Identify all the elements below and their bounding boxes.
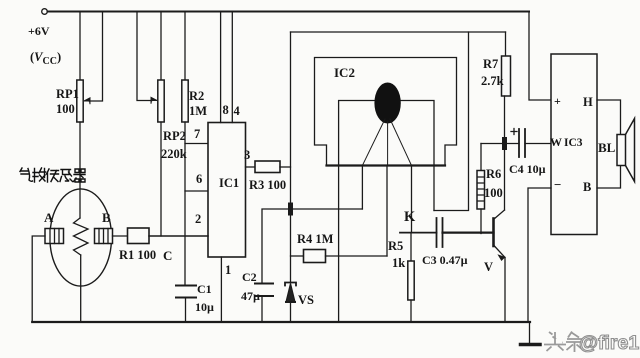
IC2 inner rectangle	[339, 101, 434, 211]
IC3 W input label	[550, 135, 562, 149]
speaker BL label	[598, 140, 616, 155]
node junction dot	[288, 205, 293, 213]
resistor R3	[255, 161, 280, 173]
svg-text:B: B	[583, 180, 591, 194]
svg-text:4: 4	[234, 104, 241, 118]
pin number 6	[196, 172, 202, 186]
svg-text:−: −	[554, 177, 561, 192]
wire sensor heater to ground	[80, 255, 82, 322]
wire node to C2 and IC2 pin	[262, 209, 362, 284]
pin number 1	[225, 263, 231, 277]
wire IC1 pin1 to ground	[220, 257, 222, 322]
resistor R6	[477, 144, 485, 234]
IC3 minus terminal label	[554, 177, 561, 192]
svg-text:R7: R7	[483, 57, 498, 71]
svg-text:C3 0.47µ: C3 0.47µ	[422, 253, 468, 267]
wire IC2 pin to R4	[386, 166, 388, 257]
svg-text:100: 100	[56, 102, 75, 116]
wire RP2 top lead	[160, 12, 162, 81]
wire R3 to trigger node	[280, 166, 291, 168]
svg-text:220k: 220k	[161, 147, 187, 161]
wire IC2 pin to node K	[411, 166, 413, 233]
wire IC1 pin3 stub	[246, 166, 256, 168]
svg-text:V: V	[484, 260, 493, 274]
resistor R3 value label	[249, 178, 286, 192]
pin number 4	[234, 104, 241, 118]
wire electrode A to left rail	[32, 236, 45, 322]
wire RP2 bottom lead to node C	[160, 122, 162, 236]
gas sensor label (气敏传感器 drawn strokes)	[20, 168, 85, 182]
svg-text:100: 100	[484, 186, 503, 200]
svg-text:VS: VS	[298, 293, 314, 307]
svg-text:C2: C2	[242, 270, 257, 284]
svg-text:R5: R5	[388, 239, 403, 253]
svg-text:3: 3	[244, 148, 250, 162]
svg-text:1k: 1k	[392, 256, 405, 270]
svg-text:BL: BL	[598, 140, 616, 155]
resistor R4	[291, 250, 388, 263]
svg-text:R1 100: R1 100	[119, 248, 156, 262]
svg-text:C: C	[163, 248, 172, 263]
op-amp IC1 label	[219, 176, 239, 190]
wire IC1 pin7 stub	[185, 143, 208, 145]
svg-text:R2: R2	[189, 89, 204, 103]
resistor R4 value label	[297, 232, 334, 246]
capacitor C4	[505, 129, 552, 158]
capacitor C1 value labels	[195, 282, 214, 314]
svg-text:IC3: IC3	[564, 137, 583, 149]
svg-text:+: +	[554, 94, 561, 108]
node K label	[404, 209, 416, 225]
pin number 2	[195, 212, 201, 226]
wire R2 bottom lead down to C1	[184, 122, 186, 285]
IC2 label	[334, 65, 355, 80]
svg-text:1: 1	[225, 263, 231, 277]
svg-text:+6V: +6V	[28, 24, 50, 38]
amplifier IC3	[551, 54, 597, 235]
zener diode VS label	[298, 293, 314, 307]
resistor R2	[182, 80, 188, 122]
wire IC3 H to speaker	[597, 100, 621, 135]
wire IC3 minus to ground	[528, 188, 551, 322]
speaker BL	[617, 119, 635, 182]
svg-text:7: 7	[194, 127, 200, 141]
svg-text:K: K	[404, 209, 416, 225]
svg-text:R6: R6	[486, 167, 501, 181]
node C label	[163, 248, 172, 263]
node A label	[44, 210, 54, 225]
wire IC1 pin6 stub	[185, 190, 208, 192]
wire IC3 B to speaker	[597, 166, 621, 189]
svg-text:W: W	[550, 135, 562, 149]
pin number 3	[244, 148, 250, 162]
resistor R7 value labels	[481, 57, 504, 88]
svg-text:C4 10µ: C4 10µ	[509, 162, 546, 176]
capacitor C4 value label	[509, 162, 546, 176]
svg-text:@fire1: @fire1	[579, 332, 639, 354]
watermark 头条 @fire1	[544, 332, 639, 355]
svg-text:10µ: 10µ	[195, 300, 214, 314]
ground symbol	[521, 322, 541, 345]
svg-text:RP2: RP2	[163, 129, 186, 143]
gas sensor envelope	[50, 189, 112, 286]
resistor R5 value labels	[388, 239, 405, 270]
svg-text:R4 1M: R4 1M	[297, 232, 334, 246]
node +6V label	[28, 24, 61, 67]
wire R6 top to collector node	[481, 143, 505, 145]
wire +6V down right side	[529, 12, 551, 101]
svg-text:1M: 1M	[189, 104, 207, 118]
IC2 top wire	[291, 31, 506, 33]
wire R1 to IC1 pin2	[149, 235, 208, 237]
transistor V label	[484, 260, 493, 274]
node collector junction dot	[502, 140, 507, 148]
op-amp IC1	[208, 123, 246, 258]
IC2 bond wires	[362, 119, 411, 166]
wire IC2 pin to ground	[338, 166, 340, 323]
gas sensor electrode B	[95, 229, 113, 244]
gas sensor heater zigzag	[74, 218, 89, 255]
resistor R1	[128, 228, 150, 244]
resistor R2 value labels	[189, 89, 207, 118]
resistor R1 value label	[119, 248, 156, 262]
pin number 7	[194, 127, 200, 141]
wire RP1 to sensor heater	[79, 122, 81, 218]
wire ground bottom rail	[32, 321, 530, 323]
svg-text:A: A	[44, 210, 54, 225]
wire IC2 pin to trigger line	[361, 166, 363, 210]
IC2 outer right side	[434, 32, 469, 211]
svg-text:2.7k: 2.7k	[481, 74, 504, 88]
capacitor C2	[255, 284, 273, 323]
IC2 chip blob	[374, 83, 400, 124]
svg-text:IC2: IC2	[334, 65, 355, 80]
svg-text:8: 8	[223, 103, 229, 117]
potentiometer RP1	[77, 12, 103, 123]
potentiometer RP2 value labels	[161, 129, 187, 161]
svg-text:RP1: RP1	[56, 87, 79, 101]
capacitor C1	[176, 286, 196, 323]
svg-text:2: 2	[195, 212, 201, 226]
wire IC1 pin4 to rail	[231, 12, 233, 123]
wire electrode B to R1	[113, 235, 128, 237]
capacitor C3	[437, 218, 494, 247]
svg-text:6: 6	[196, 172, 202, 186]
svg-text:(VCC): (VCC)	[30, 50, 61, 67]
potentiometer RP1 value labels	[56, 87, 79, 116]
IC3 plus terminal label	[554, 94, 561, 108]
resistor R6 value labels	[484, 167, 503, 200]
node +6V terminal	[42, 9, 48, 15]
resistor R5	[408, 233, 414, 322]
IC2 body box	[315, 58, 457, 166]
capacitor C2 value labels	[241, 270, 260, 303]
svg-text:B: B	[102, 210, 111, 225]
resistor R7	[502, 32, 511, 144]
amplifier IC3 label	[564, 137, 583, 149]
svg-text:C1: C1	[197, 282, 212, 296]
transistor V	[494, 144, 506, 323]
node B label	[102, 210, 111, 225]
IC3 H output label	[583, 95, 593, 109]
IC3 B output label	[583, 180, 591, 194]
wire node K	[400, 232, 437, 234]
zener diode VS	[285, 283, 296, 323]
svg-text:R3 100: R3 100	[249, 178, 286, 192]
capacitor C3 value label	[422, 253, 468, 267]
svg-text:IC1: IC1	[219, 176, 239, 190]
wire trigger node vertical	[290, 32, 292, 283]
pin number 8	[223, 103, 229, 117]
potentiometer RP2	[137, 12, 164, 123]
wire IC1 pin8 to rail	[220, 12, 222, 123]
wire R2 top lead	[184, 12, 186, 81]
wire RP1 top lead	[79, 12, 81, 81]
gas sensor electrode A	[45, 229, 64, 244]
wire +6V top rail	[48, 11, 530, 13]
svg-text:H: H	[583, 95, 593, 109]
svg-text:47µ: 47µ	[241, 289, 260, 303]
